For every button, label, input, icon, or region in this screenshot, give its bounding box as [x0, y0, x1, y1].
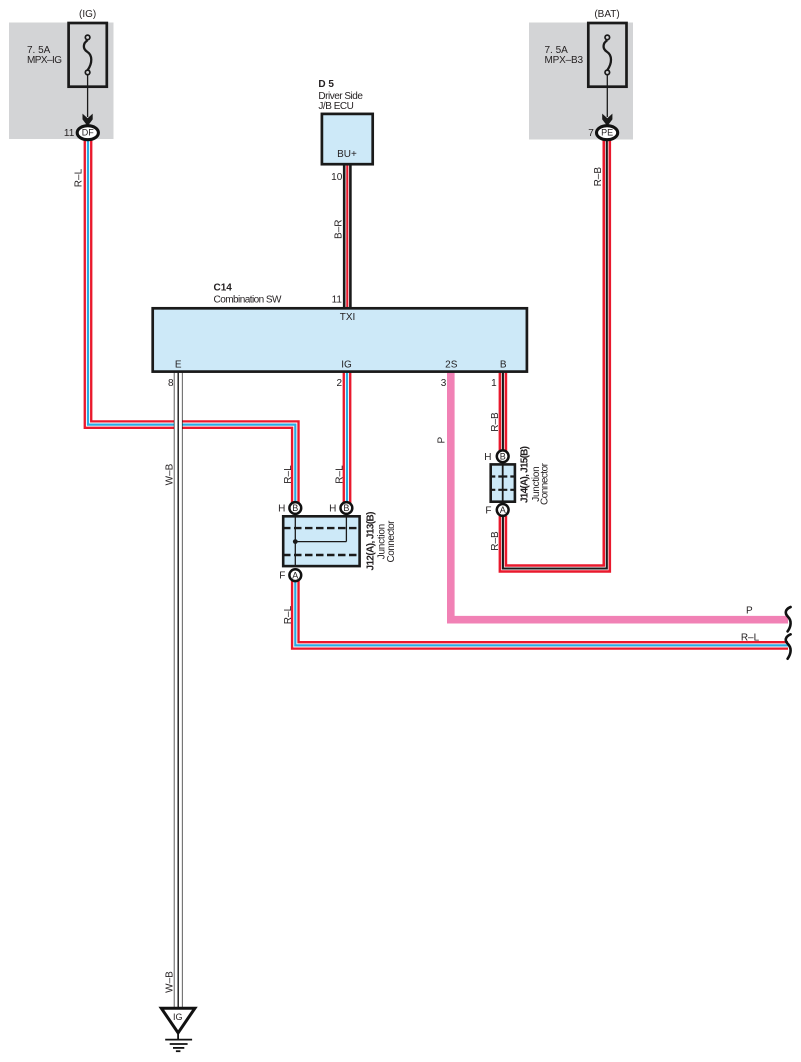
- svg-text:BU+: BU+: [337, 149, 357, 160]
- svg-text:R–B: R–B: [490, 412, 501, 432]
- svg-text:F: F: [485, 505, 491, 516]
- svg-text:2S: 2S: [445, 359, 458, 370]
- svg-text:B: B: [500, 452, 506, 462]
- svg-text:B: B: [500, 359, 507, 370]
- svg-text:P: P: [746, 606, 753, 617]
- svg-text:DF: DF: [82, 128, 94, 138]
- svg-text:11: 11: [64, 128, 75, 139]
- svg-text:D 5: D 5: [318, 79, 334, 90]
- svg-text:F: F: [279, 571, 285, 582]
- svg-text:MPX–B3: MPX–B3: [545, 55, 584, 66]
- svg-text:B: B: [292, 503, 298, 513]
- svg-text:2: 2: [336, 378, 342, 389]
- svg-text:IG: IG: [173, 1012, 183, 1022]
- svg-text:B–R: B–R: [334, 219, 345, 238]
- svg-text:W–B: W–B: [165, 971, 176, 993]
- svg-text:R–B: R–B: [490, 531, 501, 551]
- svg-text:R–B: R–B: [593, 167, 604, 187]
- svg-text:Combination SW: Combination SW: [214, 295, 283, 306]
- svg-text:H: H: [484, 452, 491, 463]
- svg-text:E: E: [175, 359, 182, 370]
- svg-text:R–L: R–L: [741, 633, 760, 644]
- svg-text:IG: IG: [341, 359, 352, 370]
- svg-text:B: B: [343, 503, 349, 513]
- svg-text:Connector: Connector: [540, 462, 551, 505]
- svg-text:J12(A), J13(B): J12(A), J13(B): [366, 512, 377, 571]
- svg-text:R–L: R–L: [283, 605, 294, 624]
- svg-text:1: 1: [491, 378, 497, 389]
- svg-text:J14(A), J15(B): J14(A), J15(B): [520, 446, 531, 503]
- svg-text:C14: C14: [214, 283, 233, 294]
- svg-text:8: 8: [168, 378, 174, 389]
- svg-text:A: A: [292, 570, 298, 580]
- svg-text:(IG): (IG): [79, 9, 96, 20]
- svg-text:R–L: R–L: [283, 465, 294, 484]
- svg-text:H: H: [278, 503, 285, 514]
- svg-text:7: 7: [588, 128, 594, 139]
- svg-text:A: A: [500, 505, 506, 515]
- svg-text:MPX–IG: MPX–IG: [27, 55, 62, 66]
- svg-text:3: 3: [441, 378, 447, 389]
- svg-text:Connector: Connector: [386, 520, 397, 563]
- svg-text:10: 10: [331, 172, 343, 183]
- svg-text:R–L: R–L: [74, 168, 85, 187]
- svg-text:R–L: R–L: [334, 465, 345, 484]
- svg-text:P: P: [436, 437, 447, 444]
- svg-text:TXI: TXI: [340, 312, 356, 323]
- svg-text:H: H: [329, 503, 336, 514]
- svg-text:W–B: W–B: [165, 463, 176, 485]
- svg-text:(BAT): (BAT): [594, 9, 619, 20]
- svg-text:J/B ECU: J/B ECU: [318, 101, 354, 112]
- svg-text:PE: PE: [601, 128, 613, 138]
- svg-text:11: 11: [332, 295, 343, 306]
